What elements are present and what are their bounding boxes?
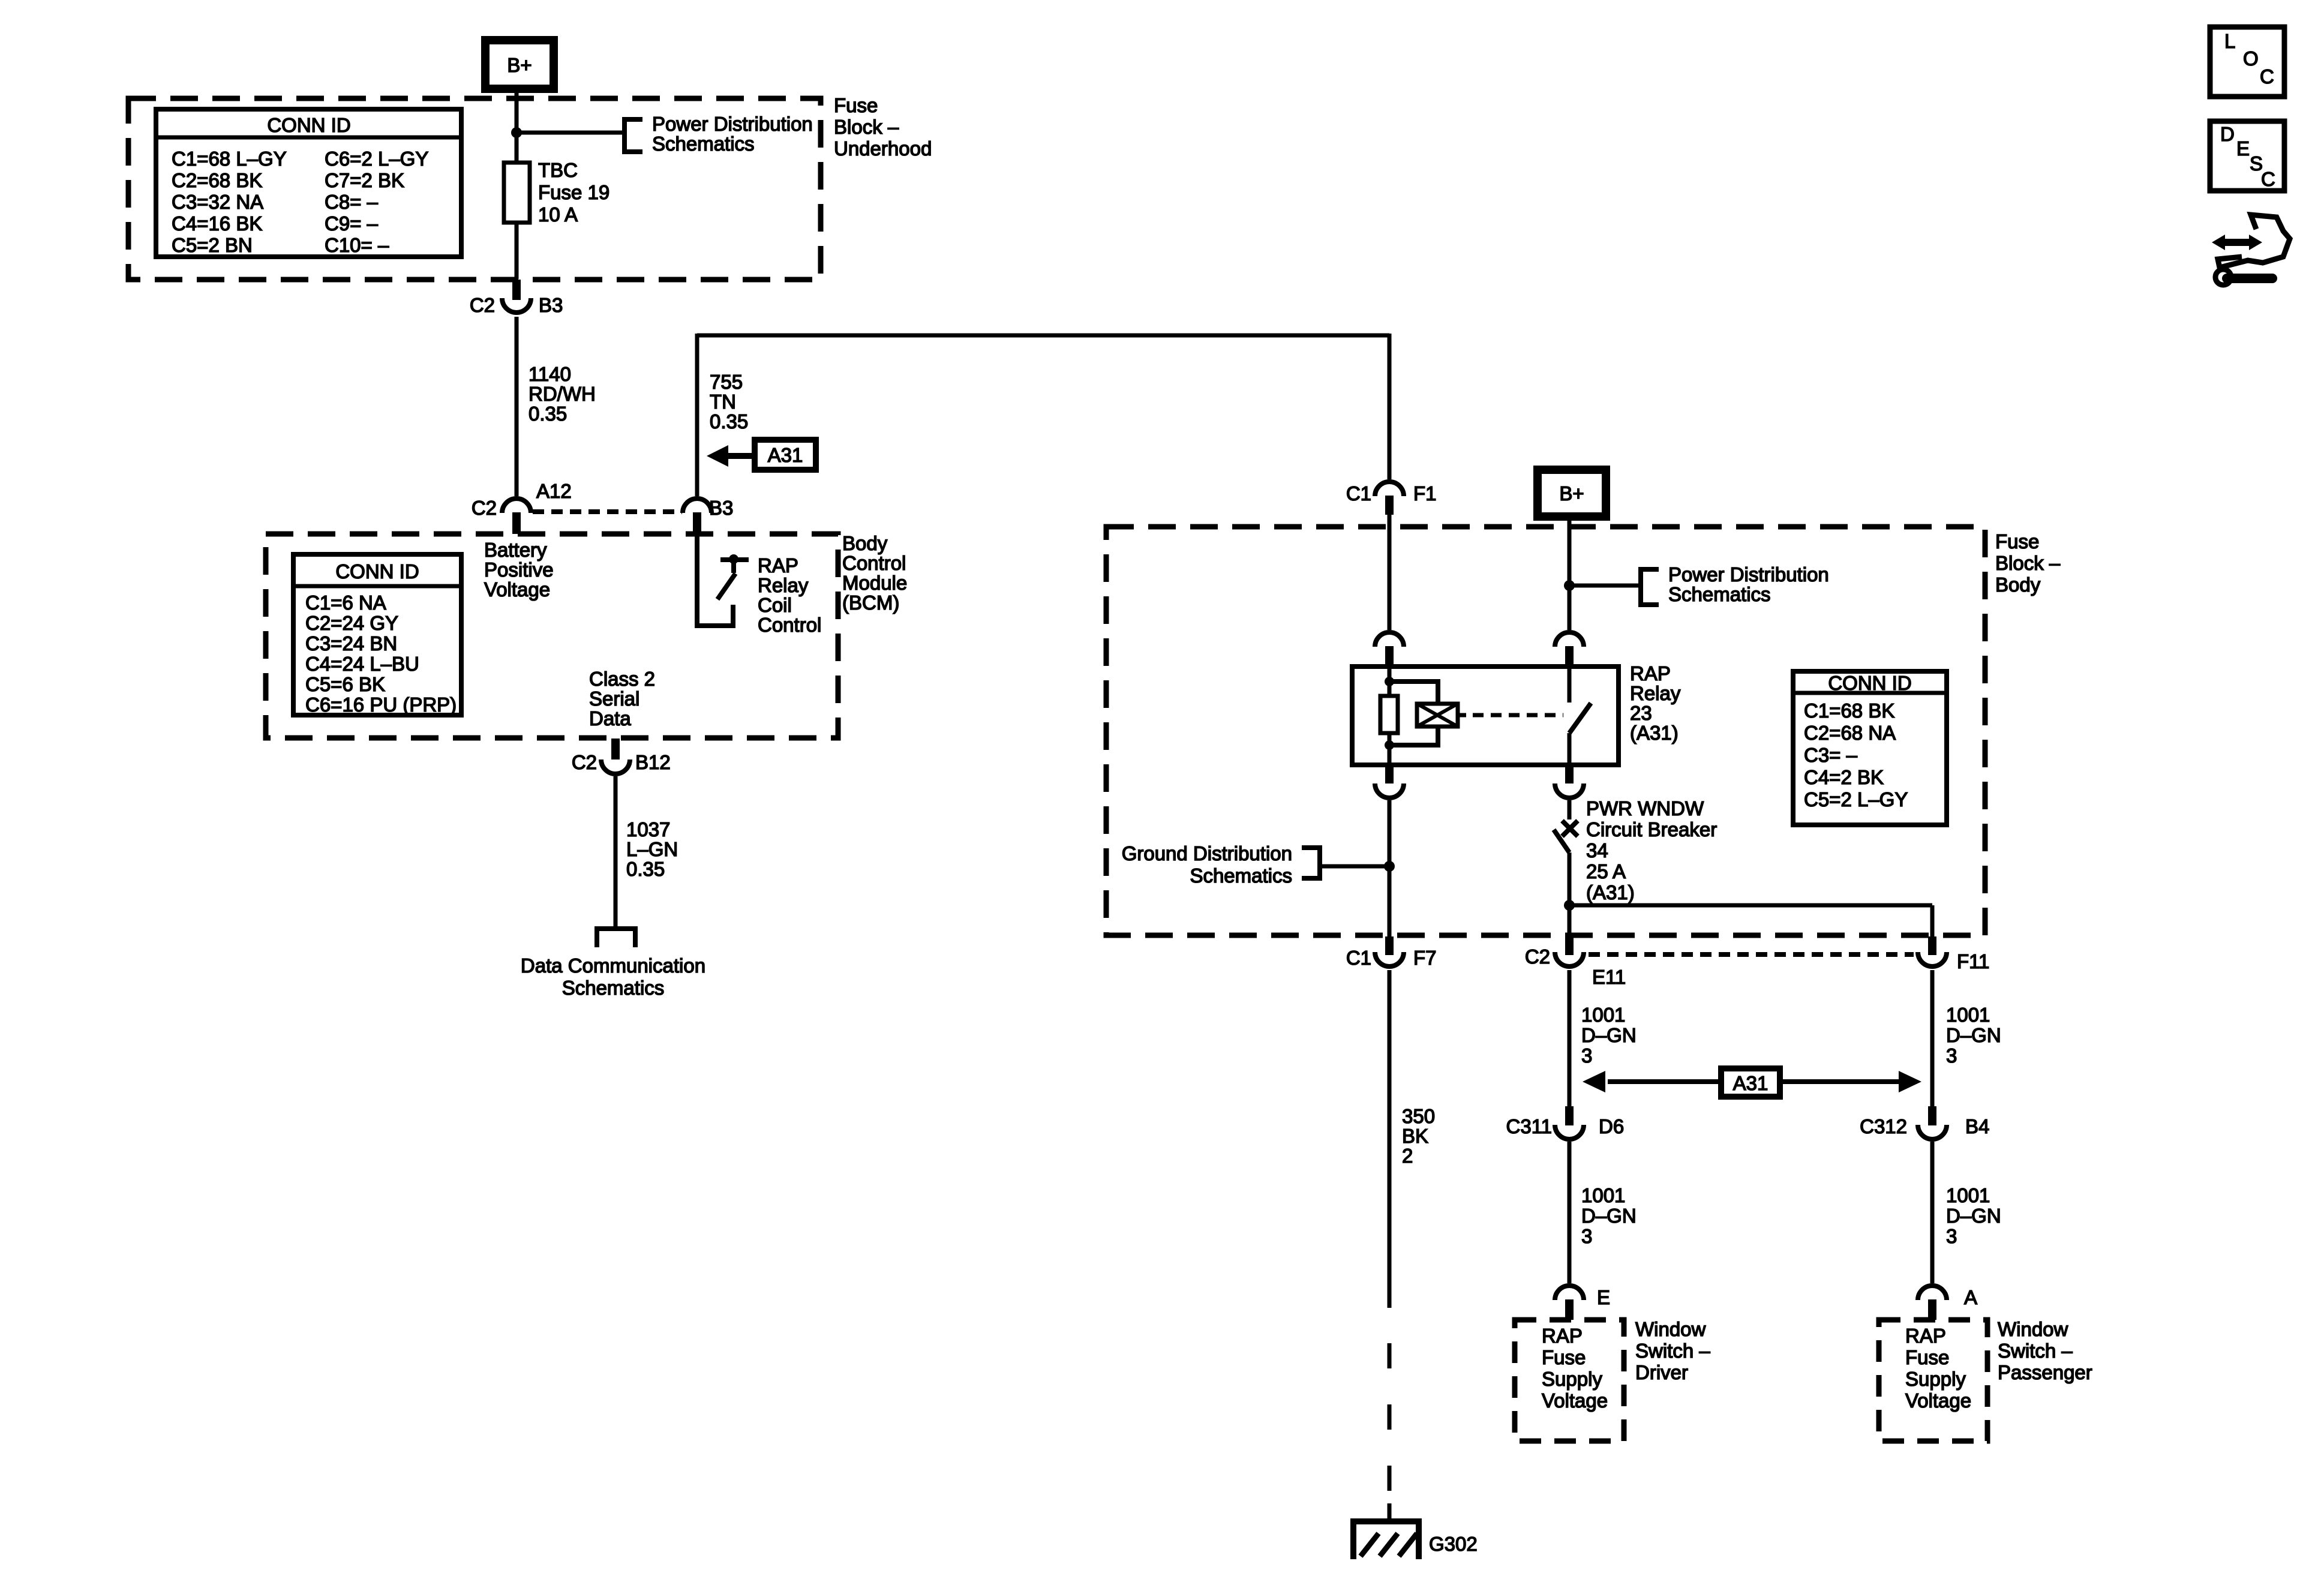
- svg-text:C4=24 L–BU: C4=24 L–BU: [305, 653, 419, 675]
- svg-text:3: 3: [1581, 1044, 1592, 1067]
- svg-text:Window: Window: [1635, 1318, 1706, 1340]
- svg-text:Window: Window: [1998, 1318, 2068, 1340]
- svg-text:C311: C311: [1506, 1115, 1552, 1137]
- svg-text:Fuse 19: Fuse 19: [538, 181, 609, 203]
- svg-text:C6=16 PU (PRP): C6=16 PU (PRP): [305, 694, 457, 716]
- svg-text:C5=2 BN: C5=2 BN: [172, 234, 253, 256]
- svg-text:C3=24 BN: C3=24 BN: [305, 632, 397, 655]
- svg-text:RAP: RAP: [758, 554, 798, 577]
- svg-text:CONN ID: CONN ID: [267, 114, 350, 136]
- svg-text:0.35: 0.35: [710, 410, 748, 433]
- svg-text:C4=2 BK: C4=2 BK: [1804, 766, 1884, 788]
- svg-text:Circuit Breaker: Circuit Breaker: [1586, 818, 1717, 840]
- svg-text:Schematics: Schematics: [1668, 583, 1771, 605]
- svg-text:B4: B4: [1965, 1115, 1989, 1137]
- svg-text:1001: 1001: [1581, 1184, 1625, 1206]
- svg-text:1001: 1001: [1946, 1184, 1990, 1206]
- svg-text:C5=2 L–GY: C5=2 L–GY: [1804, 788, 1908, 810]
- svg-text:D–GN: D–GN: [1581, 1205, 1637, 1227]
- svg-text:Body: Body: [842, 532, 888, 554]
- svg-text:Control: Control: [758, 614, 821, 636]
- svg-text:Fuse: Fuse: [1542, 1346, 1586, 1368]
- svg-text:Schematics: Schematics: [562, 977, 665, 999]
- svg-text:CONN ID: CONN ID: [1828, 672, 1911, 694]
- svg-text:34: 34: [1586, 839, 1608, 861]
- svg-text:Relay: Relay: [1630, 682, 1681, 704]
- svg-text:C1: C1: [1346, 482, 1371, 505]
- svg-text:(A31): (A31): [1586, 881, 1635, 903]
- svg-text:RAP: RAP: [1630, 662, 1671, 685]
- svg-text:3: 3: [1946, 1044, 1957, 1067]
- svg-text:Voltage: Voltage: [1542, 1389, 1608, 1412]
- svg-text:BK: BK: [1402, 1125, 1428, 1147]
- svg-text:C2=68 NA: C2=68 NA: [1804, 722, 1896, 744]
- svg-text:C3=32 NA: C3=32 NA: [172, 191, 263, 213]
- svg-text:2: 2: [1402, 1145, 1413, 1167]
- svg-text:O: O: [2243, 47, 2259, 70]
- svg-text:Fuse: Fuse: [834, 94, 878, 116]
- svg-text:1001: 1001: [1581, 1004, 1625, 1026]
- svg-text:C: C: [2261, 168, 2275, 190]
- svg-text:C2: C2: [572, 751, 597, 773]
- svg-text:A31: A31: [768, 444, 803, 466]
- svg-text:Switch –: Switch –: [1998, 1340, 2073, 1362]
- svg-text:Module: Module: [842, 572, 907, 594]
- svg-text:Power Distribution: Power Distribution: [1668, 563, 1829, 586]
- svg-text:D–GN: D–GN: [1946, 1024, 2001, 1046]
- svg-text:C2: C2: [472, 497, 497, 519]
- svg-text:C2: C2: [470, 294, 495, 316]
- svg-text:TBC: TBC: [538, 159, 578, 181]
- svg-text:Serial: Serial: [589, 688, 639, 710]
- svg-text:Voltage: Voltage: [1905, 1389, 1971, 1412]
- svg-text:C10= –: C10= –: [325, 234, 389, 256]
- svg-text:C: C: [2260, 65, 2274, 88]
- svg-text:Block –: Block –: [1995, 552, 2061, 574]
- svg-text:350: 350: [1402, 1105, 1435, 1127]
- svg-text:C4=16 BK: C4=16 BK: [172, 212, 262, 235]
- svg-text:Ground Distribution: Ground Distribution: [1122, 842, 1292, 864]
- svg-text:Voltage: Voltage: [484, 578, 550, 601]
- svg-text:A: A: [1964, 1286, 1977, 1308]
- svg-text:0.35: 0.35: [529, 403, 567, 425]
- svg-text:RAP: RAP: [1905, 1325, 1946, 1347]
- svg-text:C7=2 BK: C7=2 BK: [325, 169, 404, 191]
- svg-text:755: 755: [710, 371, 743, 393]
- svg-text:B12: B12: [635, 751, 671, 773]
- svg-text:10 A: 10 A: [538, 203, 578, 226]
- svg-text:TN: TN: [710, 391, 736, 413]
- svg-text:C1=68 L–GY: C1=68 L–GY: [172, 148, 287, 170]
- svg-text:1037: 1037: [626, 818, 670, 840]
- svg-text:E: E: [2236, 137, 2250, 160]
- svg-text:Power Distribution: Power Distribution: [652, 113, 813, 135]
- svg-text:PWR WNDW: PWR WNDW: [1586, 797, 1704, 819]
- svg-text:A12: A12: [536, 480, 572, 502]
- svg-text:Data: Data: [589, 707, 631, 730]
- svg-text:Supply: Supply: [1905, 1368, 1966, 1390]
- svg-text:Coil: Coil: [758, 594, 792, 616]
- svg-text:Driver: Driver: [1635, 1361, 1688, 1383]
- svg-text:Class 2: Class 2: [589, 668, 655, 690]
- svg-text:D: D: [2220, 123, 2235, 145]
- svg-text:Schematics: Schematics: [652, 133, 755, 155]
- svg-text:B3: B3: [709, 497, 733, 519]
- svg-text:3: 3: [1581, 1225, 1592, 1247]
- svg-text:Battery: Battery: [484, 539, 547, 561]
- svg-text:Fuse: Fuse: [1905, 1346, 1949, 1368]
- svg-text:C1=6 NA: C1=6 NA: [305, 592, 386, 614]
- svg-text:F7: F7: [1413, 947, 1437, 969]
- svg-text:C2: C2: [1525, 945, 1550, 968]
- svg-text:E11: E11: [1592, 966, 1626, 988]
- svg-text:Relay: Relay: [758, 574, 809, 596]
- svg-text:Fuse: Fuse: [1995, 530, 2039, 553]
- svg-text:RD/WH: RD/WH: [529, 383, 596, 405]
- svg-text:CONN ID: CONN ID: [335, 560, 419, 583]
- svg-text:Positive: Positive: [484, 559, 554, 581]
- svg-text:F1: F1: [1413, 482, 1437, 505]
- svg-text:1140: 1140: [529, 363, 571, 385]
- svg-text:L–GN: L–GN: [626, 838, 678, 860]
- svg-text:L: L: [2224, 30, 2235, 52]
- svg-text:3: 3: [1946, 1225, 1957, 1247]
- svg-text:C6=2 L–GY: C6=2 L–GY: [325, 148, 428, 170]
- svg-text:Supply: Supply: [1542, 1368, 1602, 1390]
- svg-text:G302: G302: [1429, 1533, 1478, 1555]
- svg-text:RAP: RAP: [1542, 1325, 1583, 1347]
- svg-text:0.35: 0.35: [626, 858, 665, 880]
- svg-text:C2=24 GY: C2=24 GY: [305, 612, 398, 634]
- svg-text:Switch –: Switch –: [1635, 1340, 1710, 1362]
- svg-text:Control: Control: [842, 552, 906, 574]
- svg-text:(A31): (A31): [1630, 722, 1679, 744]
- svg-text:23: 23: [1630, 702, 1652, 724]
- svg-text:C1=68 BK: C1=68 BK: [1804, 700, 1894, 722]
- svg-text:Schematics: Schematics: [1190, 864, 1292, 887]
- svg-text:C8= –: C8= –: [325, 191, 379, 213]
- svg-text:(BCM): (BCM): [842, 592, 899, 614]
- svg-text:B+: B+: [1559, 482, 1584, 505]
- svg-text:A31: A31: [1733, 1072, 1768, 1094]
- svg-text:E: E: [1597, 1286, 1610, 1308]
- svg-text:B3: B3: [539, 294, 563, 316]
- svg-text:F11: F11: [1957, 950, 1989, 972]
- svg-text:Block –: Block –: [834, 116, 899, 138]
- svg-text:D–GN: D–GN: [1946, 1205, 2001, 1227]
- svg-text:D–GN: D–GN: [1581, 1024, 1637, 1046]
- svg-text:C5=6 BK: C5=6 BK: [305, 673, 385, 695]
- svg-text:C1: C1: [1346, 947, 1371, 969]
- svg-text:Passenger: Passenger: [1998, 1361, 2092, 1383]
- svg-text:1001: 1001: [1946, 1004, 1990, 1026]
- svg-text:Data Communication: Data Communication: [521, 954, 705, 977]
- svg-text:25 A: 25 A: [1586, 860, 1626, 882]
- svg-text:D6: D6: [1599, 1115, 1624, 1137]
- svg-text:Body: Body: [1995, 574, 2041, 596]
- svg-text:C9= –: C9= –: [325, 212, 379, 235]
- svg-text:Underhood: Underhood: [834, 137, 932, 160]
- svg-text:B+: B+: [507, 54, 532, 76]
- svg-text:C2=68 BK: C2=68 BK: [172, 169, 262, 191]
- svg-text:C3= –: C3= –: [1804, 744, 1858, 766]
- svg-text:C312: C312: [1860, 1115, 1907, 1137]
